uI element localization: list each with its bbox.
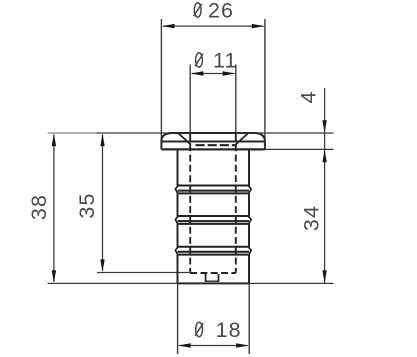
svg-text:11: 11 bbox=[213, 49, 238, 73]
svg-text:34: 34 bbox=[300, 205, 324, 231]
svg-text:35: 35 bbox=[75, 192, 99, 218]
svg-text:18: 18 bbox=[216, 318, 242, 342]
svg-text:4: 4 bbox=[297, 90, 321, 103]
svg-text:26: 26 bbox=[208, 0, 234, 23]
svg-text:38: 38 bbox=[27, 194, 51, 220]
